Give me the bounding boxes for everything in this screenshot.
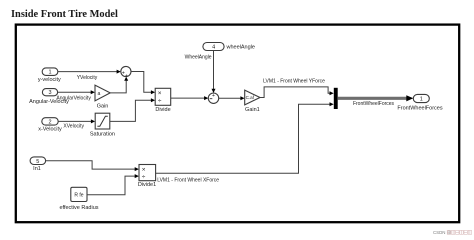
wire port4 to sum2 top [185, 51, 216, 94]
wire Divide1 to mux input2 XForce [156, 102, 334, 183]
svg-text:XVelocity: XVelocity [63, 123, 84, 129]
svg-text:y-velocity: y-velocity [38, 77, 61, 83]
inport 3 Angular-Velocity [29, 89, 69, 105]
wire mux to outport FrontWheelForces [338, 95, 414, 107]
svg-text:x-Velocity: x-Velocity [38, 127, 62, 133]
sum block Sum1 [121, 66, 131, 79]
svg-text:effective Radius: effective Radius [59, 205, 98, 211]
wire Rfe to Divide1 div [87, 174, 139, 195]
svg-text:FrontWheelForces: FrontWheelForces [353, 101, 395, 107]
svg-text:3: 3 [48, 90, 51, 96]
svg-text:C.af: C.af [246, 95, 255, 100]
wire Saturation to Divide div [110, 98, 155, 121]
svg-text:FrontWheelForces: FrontWheelForces [397, 105, 442, 111]
svg-text:R fe: R fe [74, 192, 83, 198]
svg-text:Inside Front Tire Model: Inside Front Tire Model [11, 9, 118, 20]
svg-text:1: 1 [420, 97, 423, 103]
svg-text:LVM1 - Front Wheel XForce: LVM1 - Front Wheel XForce [157, 177, 219, 183]
svg-text:Saturation: Saturation [90, 131, 115, 137]
svg-text:5: 5 [36, 159, 39, 165]
svg-text:×: × [142, 167, 146, 174]
svg-text:+: + [212, 93, 215, 99]
wire sum1 to Divide x [131, 72, 155, 95]
svg-text:Divide1: Divide1 [138, 182, 156, 188]
mux block [334, 88, 338, 109]
wire port2 to Saturation [58, 119, 95, 129]
svg-text:AngularVelocity: AngularVelocity [56, 95, 91, 101]
svg-text:÷: ÷ [158, 98, 162, 105]
inport 1 y-velocity [38, 68, 61, 83]
wire sum2 to Gain1 [219, 96, 245, 100]
divide block Divide [155, 88, 171, 113]
svg-text:Gain: Gain [97, 103, 109, 109]
svg-text:4: 4 [212, 45, 215, 51]
gain block Gain a [95, 85, 110, 109]
svg-text:In1: In1 [33, 166, 41, 172]
svg-text:+: + [125, 73, 128, 79]
inport 2 x-Velocity [38, 118, 62, 133]
divide block Divide1 [138, 165, 156, 188]
svg-text:a: a [97, 91, 100, 97]
saturation block [90, 113, 115, 137]
gain block Gain1 C.af [245, 90, 260, 113]
wire port5 to Divide1 x [46, 161, 139, 171]
svg-text:wheelAngle: wheelAngle [226, 45, 255, 51]
svg-text:LVM1 - Front Wheel YForce: LVM1 - Front Wheel YForce [263, 78, 325, 84]
inport 5 In1 [30, 157, 45, 172]
wire port3 to Gain [56, 90, 95, 101]
svg-text:×: × [158, 90, 162, 97]
sum block Sum2 [208, 93, 218, 103]
subsystem frame [16, 25, 459, 223]
watermark CSDN [433, 230, 472, 235]
outport 1 FrontWheelForces [397, 94, 442, 111]
svg-text:÷: ÷ [142, 174, 146, 181]
svg-text:1: 1 [48, 70, 51, 76]
inport 4 wheelAngle [203, 43, 255, 51]
svg-text:2: 2 [48, 120, 51, 126]
wire Gain to sum1 bottom [110, 77, 128, 93]
svg-text:WheelAngle: WheelAngle [185, 54, 212, 60]
wire Gain1 to mux input1 YForce [260, 78, 334, 97]
svg-text:Divide: Divide [155, 107, 170, 113]
svg-text:Gain1: Gain1 [245, 107, 260, 113]
wire port1 to sum1 [58, 70, 121, 81]
diagram title [11, 9, 118, 20]
constant block R fe effective Radius [59, 187, 98, 211]
wire Divide to sum2 [171, 96, 209, 100]
svg-text:YVelocity: YVelocity [77, 75, 98, 81]
